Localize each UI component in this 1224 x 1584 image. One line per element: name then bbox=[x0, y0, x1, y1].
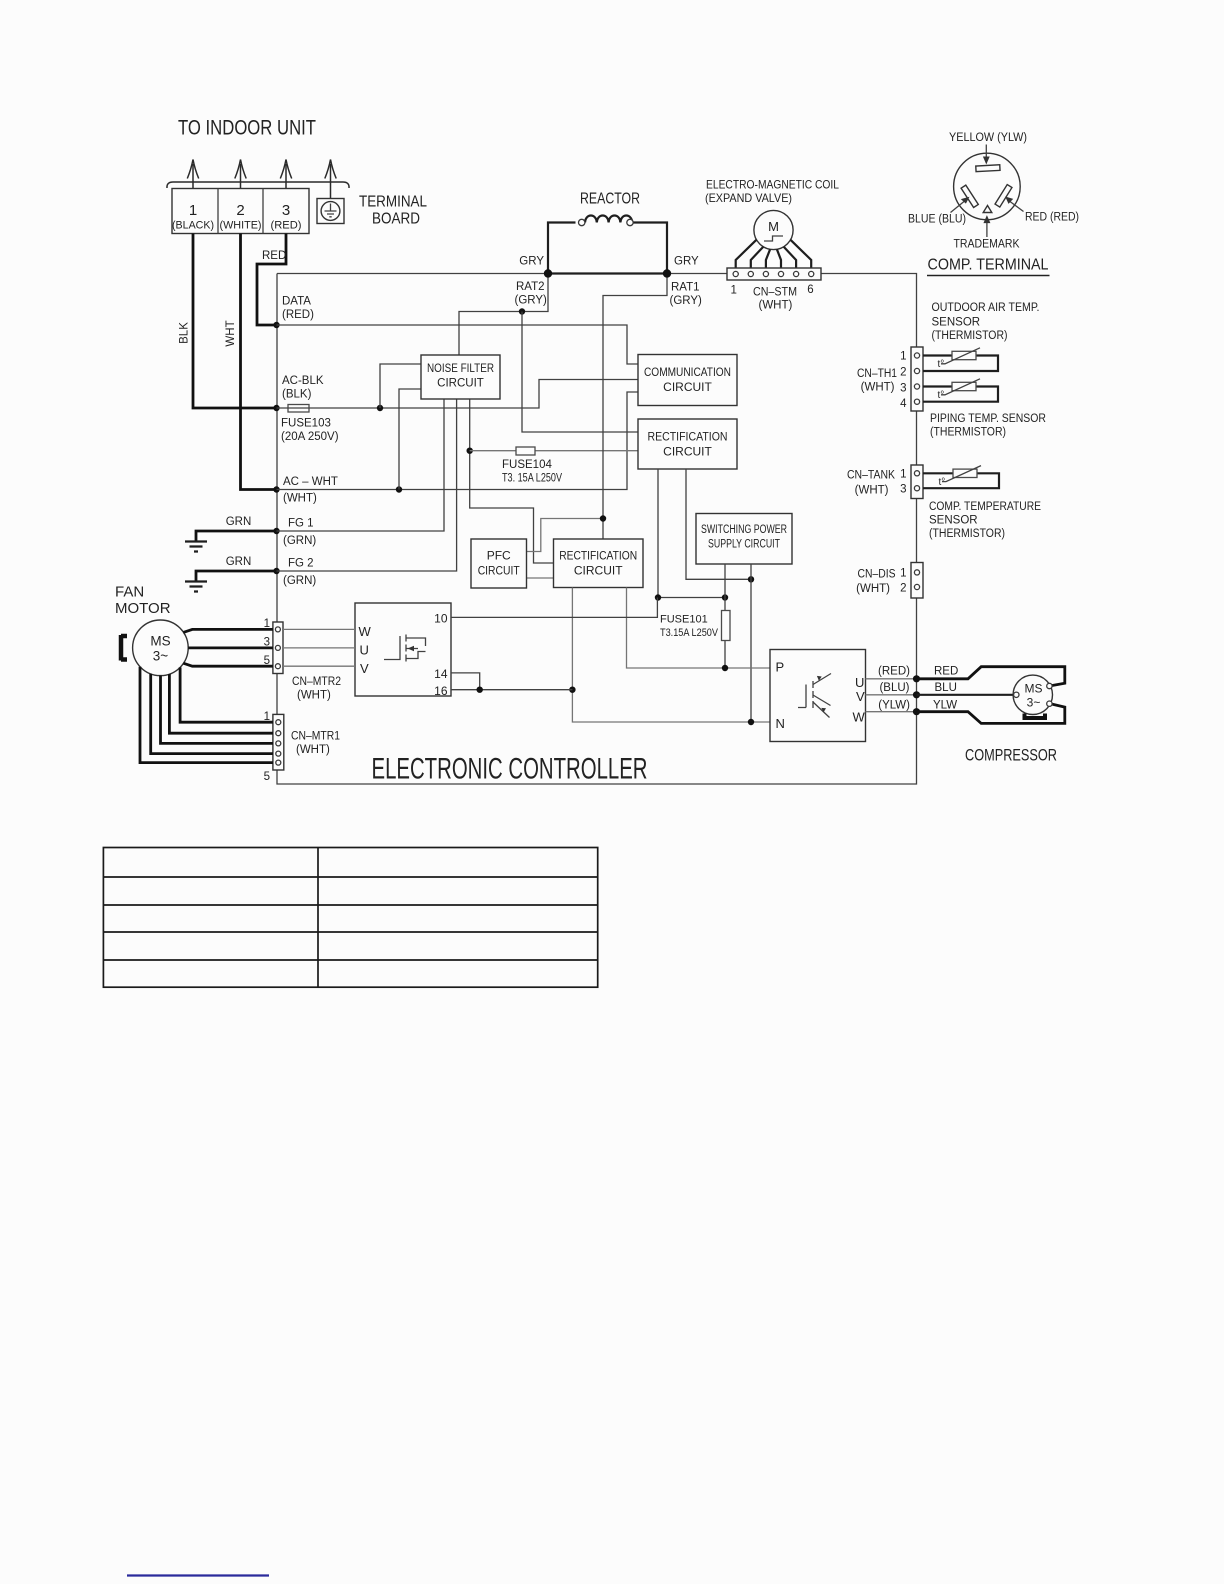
noise filter circuit block bbox=[421, 355, 500, 399]
connector CN-MTR1 (WHT) bbox=[264, 711, 340, 783]
svg-text:6: 6 bbox=[807, 284, 813, 296]
connector CN-DIS (WHT) bbox=[856, 563, 923, 599]
svg-text:BLK: BLK bbox=[179, 322, 191, 344]
svg-text:(RED): (RED) bbox=[282, 309, 314, 321]
PFC circuit block bbox=[471, 539, 527, 588]
fuse FUSE103 (20A 250V) bbox=[288, 405, 309, 413]
svg-text:(THERMISTOR): (THERMISTOR) bbox=[929, 528, 1005, 540]
svg-text:CIRCUIT: CIRCUIT bbox=[663, 380, 712, 394]
svg-text:(BLK): (BLK) bbox=[282, 389, 312, 401]
wire FG2 to noise filter bbox=[277, 399, 457, 571]
node AC-WHT / noise filter junction bbox=[396, 486, 402, 492]
svg-text:1: 1 bbox=[189, 202, 197, 219]
svg-text:(WHT): (WHT) bbox=[861, 382, 895, 394]
reactor L1 bbox=[548, 215, 667, 273]
svg-text:CIRCUIT: CIRCUIT bbox=[478, 564, 521, 578]
svg-text:(RED): (RED) bbox=[271, 220, 302, 232]
svg-text:AC-BLK: AC-BLK bbox=[282, 375, 324, 387]
svg-text:(WHT): (WHT) bbox=[296, 744, 330, 756]
svg-text:(WHT): (WHT) bbox=[297, 690, 331, 702]
svg-text:(GRN): (GRN) bbox=[283, 535, 316, 547]
svg-text:SENSOR: SENSOR bbox=[932, 317, 981, 329]
svg-text:RAT2: RAT2 bbox=[516, 281, 545, 293]
node DATA (RED) bbox=[273, 322, 279, 328]
MOSFET symbol inside inverter bbox=[384, 635, 426, 662]
wire BLU to compressor bbox=[917, 694, 1015, 696]
fan motor bracket bbox=[121, 635, 127, 661]
inverter IC block (fan motor drive) bbox=[355, 603, 451, 698]
svg-text:W: W bbox=[359, 624, 372, 639]
node RAT2 (GRY) bbox=[519, 308, 525, 314]
connector CN-TANK (WHT) bbox=[847, 465, 923, 499]
svg-text:SENSOR: SENSOR bbox=[929, 515, 978, 527]
node B supply junction bbox=[748, 576, 754, 582]
node P junction bbox=[722, 665, 728, 671]
terminal board TB1 bbox=[172, 189, 309, 234]
svg-text:(WHT): (WHT) bbox=[855, 485, 889, 497]
svg-text:PFC: PFC bbox=[487, 549, 511, 563]
svg-text:TERMINAL: TERMINAL bbox=[359, 194, 427, 211]
svg-text:FG 1: FG 1 bbox=[288, 518, 314, 530]
svg-text:CN–MTR1: CN–MTR1 bbox=[291, 731, 340, 743]
comp temperature sensor thermistor loop bbox=[923, 473, 999, 488]
svg-text:t°: t° bbox=[938, 359, 945, 370]
connector CN-STM (WHT) pins 1-6 bbox=[727, 268, 821, 312]
wire PFC to RAT1 node bbox=[527, 519, 604, 552]
piping temp sensor thermistor loop bbox=[923, 387, 998, 402]
svg-text:(RED): (RED) bbox=[878, 666, 910, 678]
node U out bbox=[913, 675, 920, 682]
svg-text:2: 2 bbox=[900, 367, 906, 379]
wire AC-WHT to communication circuit bbox=[277, 392, 639, 490]
svg-text:(BLU): (BLU) bbox=[879, 682, 909, 694]
wire supply circuit to N node bbox=[750, 564, 752, 722]
switching power supply circuit block bbox=[696, 514, 792, 565]
svg-text:RED (RED): RED (RED) bbox=[1025, 212, 1079, 224]
svg-text:(WHT): (WHT) bbox=[856, 583, 890, 595]
svg-text:FUSE103: FUSE103 bbox=[281, 418, 331, 430]
node RAT1 junction with PFC branch bbox=[600, 515, 606, 521]
svg-text:(WHITE): (WHITE) bbox=[220, 220, 262, 232]
svg-text:GRN: GRN bbox=[226, 516, 252, 528]
svg-text:MS: MS bbox=[150, 634, 170, 649]
wire FG1 to noise filter bbox=[277, 399, 445, 531]
svg-text:RECTIFICATION: RECTIFICATION bbox=[559, 549, 637, 563]
wires fan motor to CN-MTR2 bbox=[183, 629, 273, 666]
compressor terminal view circle bbox=[954, 153, 1021, 220]
svg-text:U: U bbox=[855, 675, 864, 690]
node AC-WHT bbox=[273, 486, 279, 492]
svg-text:RECTIFICATION: RECTIFICATION bbox=[648, 430, 728, 444]
wire noise filter pin3 chain to rectification circuit 2 bbox=[470, 399, 554, 563]
svg-text:WHT: WHT bbox=[225, 320, 237, 346]
rectification circuit block 1 bbox=[638, 419, 737, 469]
svg-text:(YLW): (YLW) bbox=[878, 700, 910, 712]
ground symbol 2 bbox=[185, 582, 207, 592]
svg-text:M: M bbox=[768, 219, 779, 234]
svg-text:NOISE FILTER: NOISE FILTER bbox=[427, 363, 494, 375]
wire rectification2 to module N bbox=[572, 588, 770, 723]
svg-text:(20A 250V): (20A 250V) bbox=[281, 431, 339, 443]
svg-text:SUPPLY CIRCUIT: SUPPLY CIRCUIT bbox=[708, 539, 780, 551]
compressor motor MS 3~ bbox=[1013, 675, 1052, 714]
connector CN-TH1 (WHT) bbox=[857, 347, 923, 411]
svg-text:GRY: GRY bbox=[519, 256, 544, 268]
wire node A to FUSE101 node bbox=[658, 597, 725, 599]
svg-text:2: 2 bbox=[236, 202, 244, 219]
power module (IPM) block bbox=[770, 650, 866, 742]
wire FUSE104 to rectification circuit bbox=[470, 450, 638, 452]
svg-text:3: 3 bbox=[282, 202, 290, 219]
wire AC-BLK to communication circuit bbox=[277, 380, 639, 409]
fan motor MS 3~ bbox=[133, 620, 189, 676]
svg-text:DATA: DATA bbox=[282, 296, 311, 308]
svg-text:REACTOR: REACTOR bbox=[580, 191, 640, 208]
wire rectification1 to supply node B bbox=[686, 469, 751, 579]
wires CN-MTR2 to inverter W U V bbox=[283, 629, 355, 666]
svg-text:(THERMISTOR): (THERMISTOR) bbox=[932, 330, 1008, 342]
svg-text:1: 1 bbox=[900, 469, 906, 481]
svg-text:COMMUNICATION: COMMUNICATION bbox=[644, 365, 731, 379]
svg-text:MS: MS bbox=[1025, 682, 1043, 696]
svg-text:W: W bbox=[853, 710, 866, 725]
wires module U V W to board edge bbox=[866, 679, 917, 712]
rectification circuit block 2 bbox=[554, 539, 644, 588]
svg-text:FUSE101: FUSE101 bbox=[660, 614, 708, 626]
svg-text:16: 16 bbox=[434, 684, 448, 698]
svg-text:CIRCUIT: CIRCUIT bbox=[663, 445, 712, 459]
node pin16 junction bbox=[569, 687, 575, 693]
svg-text:(GRY): (GRY) bbox=[670, 295, 703, 307]
svg-text:3: 3 bbox=[900, 383, 906, 395]
svg-text:ELECTRO-MAGNETIC COIL: ELECTRO-MAGNETIC COIL bbox=[706, 178, 839, 192]
svg-text:SWITCHING POWER: SWITCHING POWER bbox=[701, 524, 787, 536]
node FUSE104 junction bbox=[467, 448, 473, 454]
svg-text:1: 1 bbox=[730, 285, 736, 297]
electronic controller board outline bbox=[277, 274, 917, 785]
svg-text:(GRN): (GRN) bbox=[283, 575, 316, 587]
svg-text:BOARD: BOARD bbox=[372, 211, 420, 228]
svg-text:2: 2 bbox=[900, 583, 906, 595]
wire rectification1 to node A bbox=[657, 469, 659, 598]
svg-text:1: 1 bbox=[900, 351, 906, 363]
svg-text:MOTOR: MOTOR bbox=[115, 600, 171, 617]
wire inverter pin 10 bbox=[451, 598, 657, 618]
communication circuit block bbox=[638, 355, 737, 406]
wire RAT2 to rectification circuit bbox=[522, 312, 638, 433]
node W out bbox=[913, 708, 920, 715]
svg-text:YLW: YLW bbox=[933, 700, 957, 712]
svg-text:T3.15A L250V: T3.15A L250V bbox=[660, 627, 719, 639]
svg-text:U: U bbox=[360, 643, 369, 658]
outdoor air temp sensor thermistor loop bbox=[923, 356, 998, 372]
svg-text:TRADEMARK: TRADEMARK bbox=[954, 239, 1020, 251]
svg-text:V: V bbox=[856, 689, 865, 704]
wire WHT (terminal 2 to AC-WHT) bbox=[241, 234, 275, 490]
node pin14/16 junction bbox=[477, 687, 483, 693]
svg-text:(WHT): (WHT) bbox=[283, 493, 317, 505]
svg-text:t°: t° bbox=[938, 390, 945, 401]
node FG 2 bbox=[273, 568, 279, 574]
svg-text:FG 2: FG 2 bbox=[288, 558, 314, 570]
node AC-BLK / noise filter junction bbox=[377, 405, 383, 411]
svg-text:t°: t° bbox=[939, 477, 946, 488]
node AC-BLK bbox=[273, 405, 279, 411]
fuse FUSE101 (T3.15A L250V) bbox=[722, 611, 731, 641]
svg-text:5: 5 bbox=[264, 771, 270, 783]
svg-text:BLUE (BLU): BLUE (BLU) bbox=[908, 214, 966, 226]
node FG 1 bbox=[273, 528, 279, 534]
svg-text:COMPRESSOR: COMPRESSOR bbox=[965, 747, 1057, 765]
svg-text:1: 1 bbox=[900, 568, 906, 580]
svg-text:RED: RED bbox=[934, 666, 958, 678]
wire RAT1 to rectification circuit 2 bbox=[603, 274, 667, 540]
svg-text:V: V bbox=[360, 661, 369, 676]
ground symbol 1 bbox=[185, 542, 207, 552]
svg-text:COMP. TERMINAL: COMP. TERMINAL bbox=[928, 257, 1049, 274]
electro-magnetic coil motor M (expand valve) bbox=[754, 210, 793, 249]
compressor base mark bbox=[1025, 714, 1046, 719]
svg-text:CN–STM: CN–STM bbox=[753, 287, 797, 299]
wire GRN to ground 1 bbox=[196, 531, 277, 542]
wire noise filter left pin A bbox=[380, 364, 421, 408]
svg-text:4: 4 bbox=[900, 398, 907, 410]
wire RED (terminal 3 to DATA) bbox=[257, 234, 286, 326]
svg-text:YELLOW (YLW): YELLOW (YLW) bbox=[949, 132, 1027, 144]
svg-text:CIRCUIT: CIRCUIT bbox=[437, 378, 484, 390]
svg-text:P: P bbox=[776, 660, 785, 675]
wire noise filter left pin B bbox=[399, 389, 421, 490]
svg-text:CN–TANK: CN–TANK bbox=[847, 470, 895, 482]
svg-text:ELECTRONIC CONTROLLER: ELECTRONIC CONTROLLER bbox=[372, 753, 648, 786]
svg-text:14: 14 bbox=[434, 667, 448, 681]
node N junction bbox=[748, 719, 754, 725]
IGBT symbol inside module bbox=[798, 674, 831, 718]
svg-text:COMP. TEMPERATURE: COMP. TEMPERATURE bbox=[929, 501, 1041, 513]
svg-text:RAT1: RAT1 bbox=[671, 282, 700, 294]
svg-text:GRN: GRN bbox=[226, 556, 252, 568]
svg-text:RED: RED bbox=[262, 250, 286, 262]
svg-text:(GRY): (GRY) bbox=[515, 295, 548, 307]
wire DATA to communication circuit bbox=[277, 325, 639, 364]
svg-text:10: 10 bbox=[434, 612, 448, 626]
svg-text:N: N bbox=[776, 716, 785, 731]
svg-text:CN–TH1: CN–TH1 bbox=[857, 368, 897, 380]
svg-text:3~: 3~ bbox=[1027, 696, 1041, 710]
connector CN-MTR2 (WHT) bbox=[264, 618, 341, 702]
footer link underline bbox=[127, 1574, 269, 1576]
svg-text:AC – WHT: AC – WHT bbox=[283, 476, 338, 488]
parts table (empty) bbox=[103, 848, 597, 988]
wire inverter pin 14 bbox=[451, 673, 480, 690]
node FUSE101 top bbox=[722, 594, 728, 600]
svg-text:(EXPAND VALVE): (EXPAND VALVE) bbox=[705, 191, 792, 205]
wire BLK (terminal 1 to AC-BLK) bbox=[193, 234, 274, 409]
fuse FUSE104 (T3. 15A L250V) bbox=[516, 447, 535, 455]
svg-text:GRY: GRY bbox=[674, 256, 699, 268]
node A bbox=[655, 594, 661, 600]
svg-text:FAN: FAN bbox=[115, 584, 144, 601]
svg-text:3: 3 bbox=[900, 484, 906, 496]
wire YLW to compressor bbox=[917, 704, 1065, 723]
svg-text:BLU: BLU bbox=[935, 682, 957, 694]
svg-text:PIPING TEMP. SENSOR: PIPING TEMP. SENSOR bbox=[930, 413, 1046, 425]
svg-text:3~: 3~ bbox=[153, 649, 169, 664]
svg-text:(THERMISTOR): (THERMISTOR) bbox=[930, 427, 1006, 439]
coil leads to CN-STM bbox=[736, 240, 812, 268]
svg-text:OUTDOOR AIR TEMP.: OUTDOOR AIR TEMP. bbox=[932, 302, 1040, 314]
svg-text:(BLACK): (BLACK) bbox=[172, 220, 214, 232]
wire PFC to rectification circuit 2 bbox=[527, 577, 554, 579]
svg-text:CIRCUIT: CIRCUIT bbox=[574, 564, 623, 578]
wire rectification2 to module P bbox=[627, 588, 771, 669]
wire GRN to ground 2 bbox=[196, 571, 277, 582]
svg-text:TO INDOOR UNIT: TO INDOOR UNIT bbox=[178, 117, 316, 140]
svg-text:T3. 15A L250V: T3. 15A L250V bbox=[502, 473, 562, 485]
svg-text:(WHT): (WHT) bbox=[759, 300, 793, 312]
wires fan motor to CN-MTR1 bbox=[140, 667, 273, 763]
wire RED to compressor bbox=[917, 667, 1065, 686]
wire GRY / RAT2 drop to noise filter top bbox=[459, 274, 548, 356]
wire supply circuit to FUSE101 bbox=[724, 564, 726, 668]
indoor unit lead arrows and brace bbox=[167, 160, 349, 199]
svg-text:CN–DIS: CN–DIS bbox=[858, 569, 896, 581]
earth terminal bbox=[317, 199, 344, 224]
node reactor left terminal GRY bbox=[544, 269, 552, 277]
wire inverter pin 16 bbox=[451, 689, 572, 691]
svg-text:CN–MTR2: CN–MTR2 bbox=[292, 676, 341, 688]
svg-text:FUSE104: FUSE104 bbox=[502, 459, 552, 471]
node reactor right terminal GRY / RAT1 bbox=[663, 269, 671, 277]
node V out bbox=[913, 691, 920, 698]
